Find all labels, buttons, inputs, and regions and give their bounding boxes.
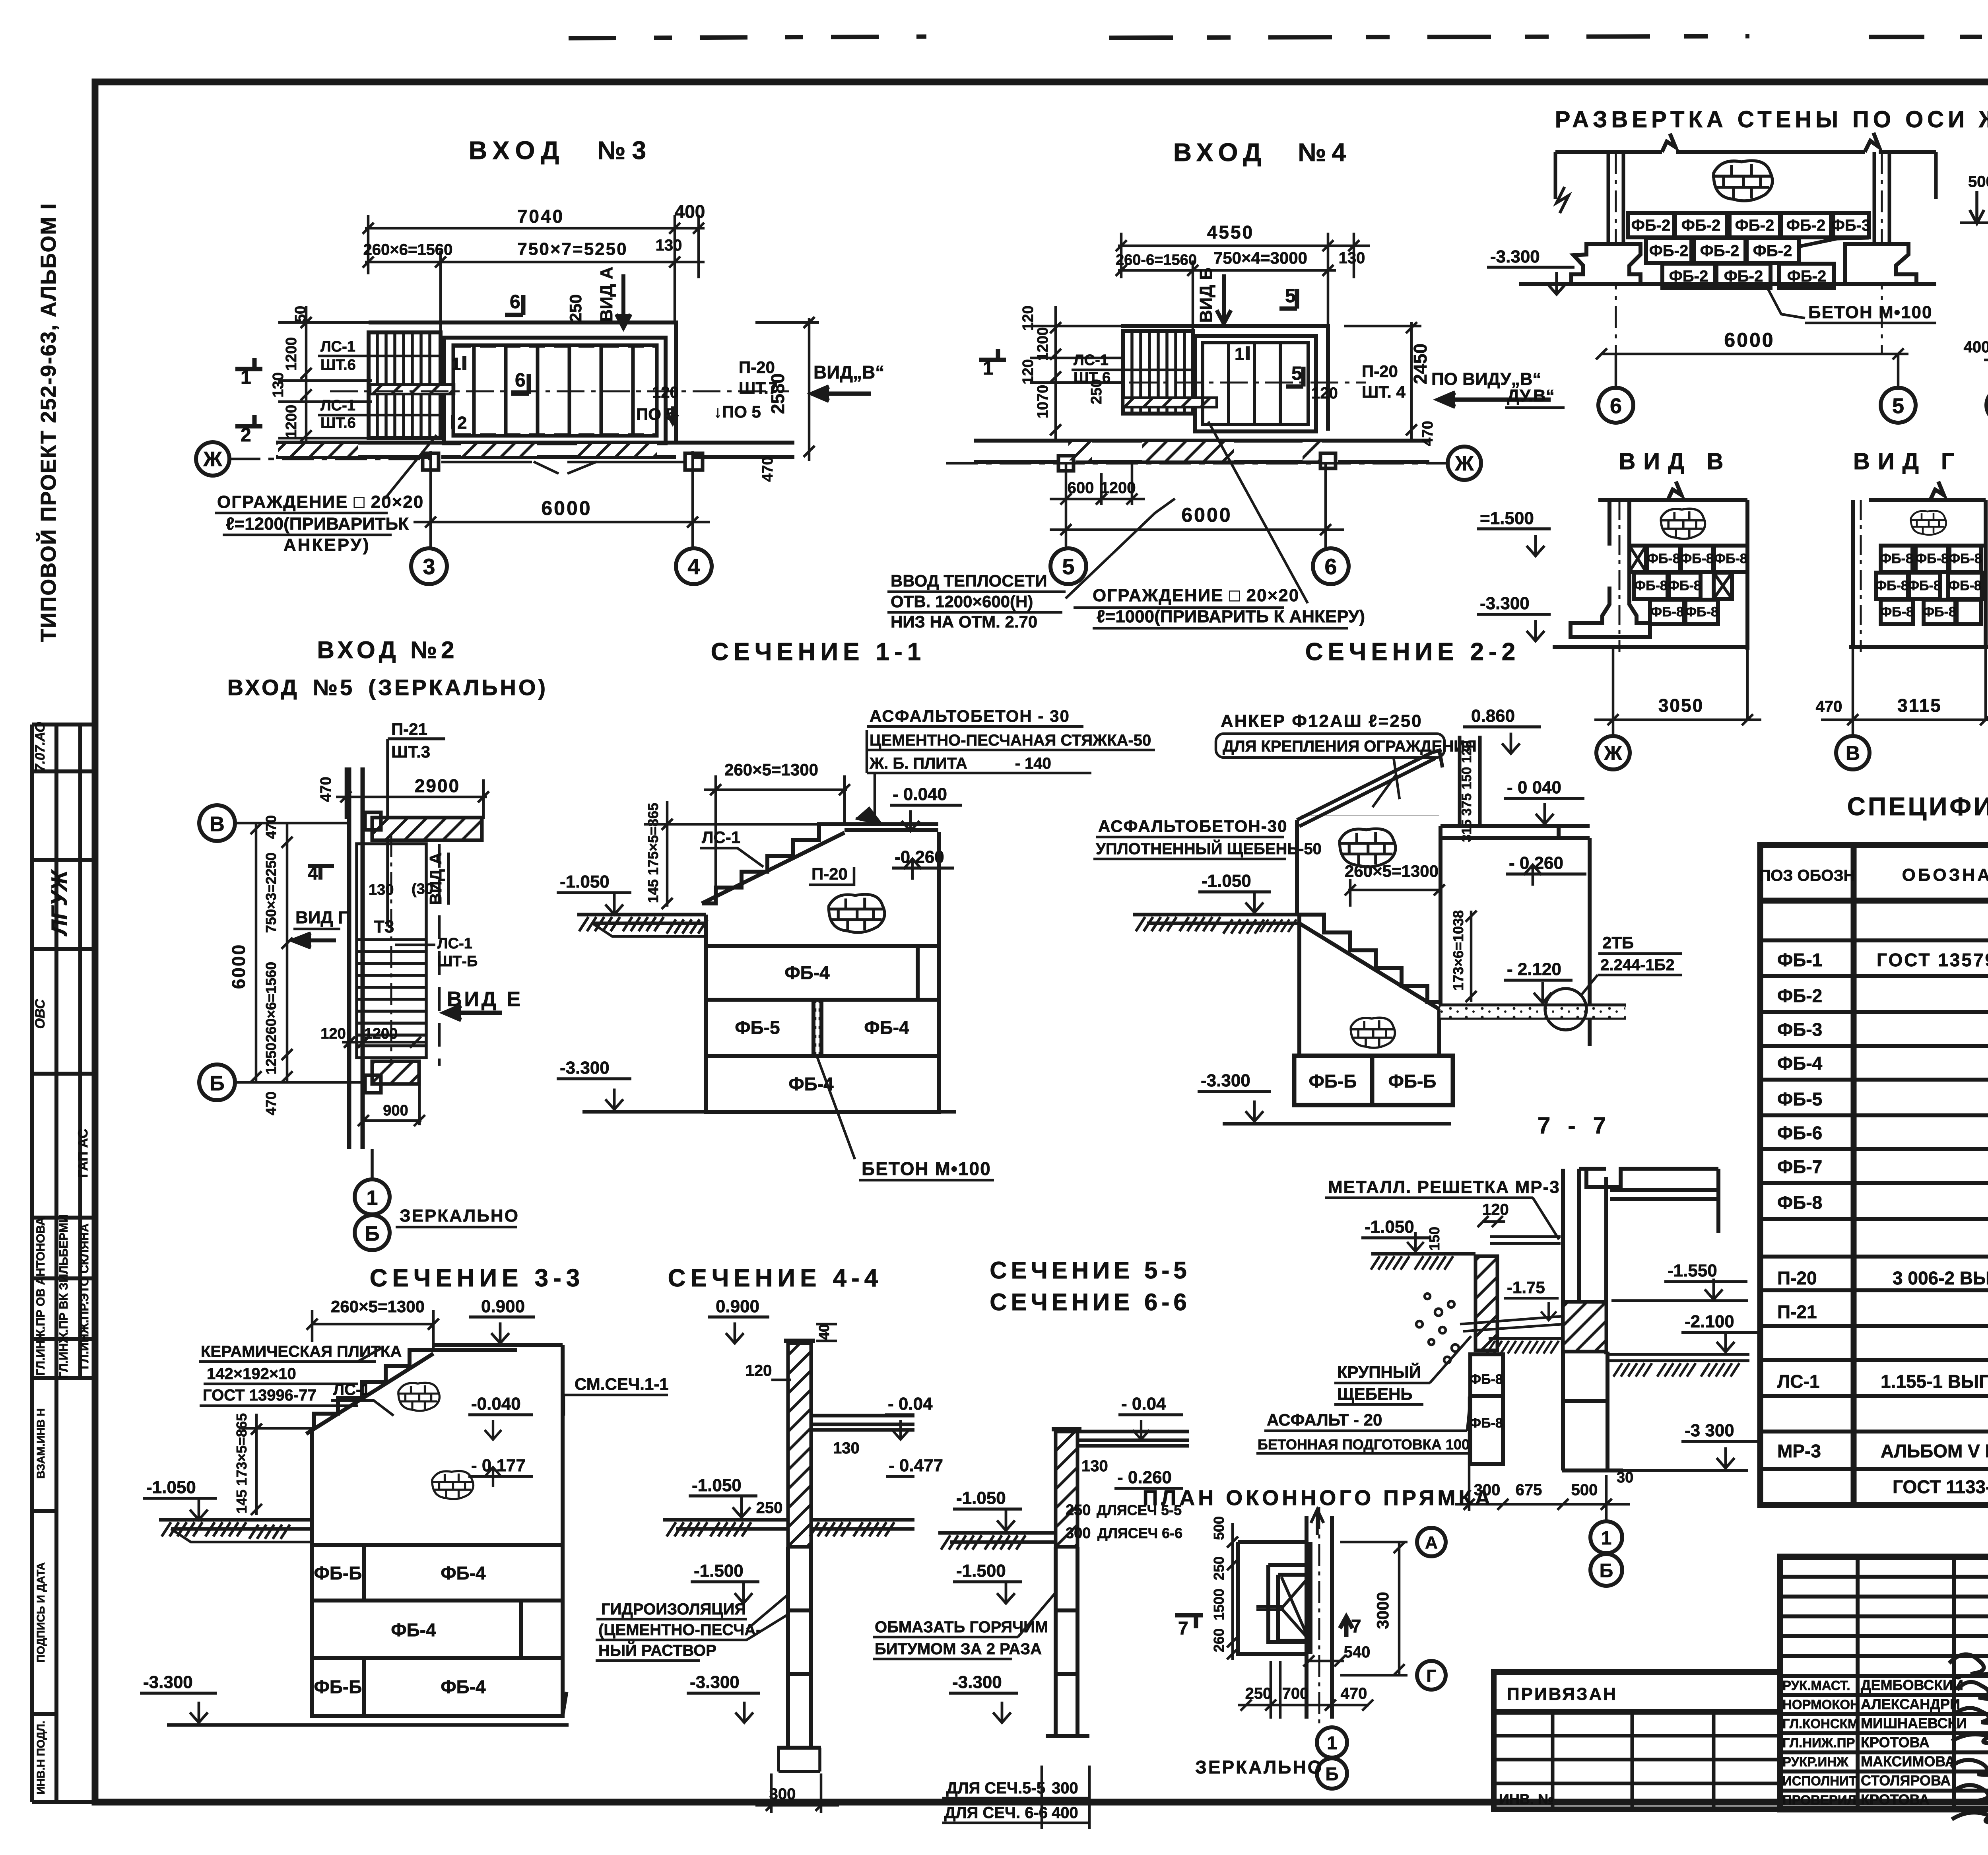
svg-text:1: 1: [1327, 1733, 1337, 1753]
svg-text:СЕЧЕНИЕ 6-6: СЕЧЕНИЕ 6-6: [990, 1289, 1190, 1315]
svg-text:НЫЙ РАСТВОР: НЫЙ РАСТВОР: [598, 1641, 716, 1659]
svg-text:2900: 2900: [415, 775, 460, 796]
svg-text:КРУПНЫЙ: КРУПНЫЙ: [1337, 1362, 1421, 1381]
svg-text:ФБ-2: ФБ-2: [1631, 217, 1670, 234]
left dim chain: [1211, 1516, 1227, 1652]
wall mass with blocks: [312, 1345, 563, 1716]
svg-text:↓ПО 5: ↓ПО 5: [714, 402, 761, 421]
svg-text:250: 250: [756, 1499, 783, 1517]
grate: [1490, 1237, 1561, 1243]
svg-text:120: 120: [745, 1362, 772, 1379]
svg-text:Г: Г: [1427, 1666, 1437, 1686]
svg-text:1200: 1200: [283, 405, 300, 439]
svg-text:КЕРАМИЧЕСКАЯ ПЛИТКА: КЕРАМИЧЕСКАЯ ПЛИТКА: [201, 1343, 402, 1360]
svg-text:ФБ-4: ФБ-4: [1777, 1053, 1823, 1074]
dims 600 1200: [1050, 462, 1145, 549]
svg-text:250: 250: [566, 294, 585, 322]
blocks: [1629, 546, 1747, 624]
svg-text:ФБ-8: ФБ-8: [1908, 578, 1941, 593]
svg-text:СЕЧЕНИЕ 5-5: СЕЧЕНИЕ 5-5: [990, 1257, 1190, 1284]
svg-text:- 0.260: - 0.260: [1117, 1468, 1172, 1487]
axis circle Ж: [196, 442, 229, 476]
svg-text:ФБ-8: ФБ-8: [1650, 604, 1684, 620]
svg-text:173×6=1038: 173×6=1038: [1450, 910, 1466, 991]
svg-text:ПОДПИСЬ И ДАТА: ПОДПИСЬ И ДАТА: [35, 1562, 47, 1663]
svg-text:1250: 1250: [263, 1043, 279, 1074]
svg-text:470: 470: [759, 456, 776, 482]
svg-text:БЕТОННАЯ ПОДГОТОВКА 100‥120: БЕТОННАЯ ПОДГОТОВКА 100‥120: [1258, 1436, 1503, 1453]
plate inner rect and ribs: [453, 345, 657, 436]
svg-text:ИНВ.Н ПОДЛ.: ИНВ.Н ПОДЛ.: [35, 1721, 47, 1794]
svg-text:1: 1: [451, 354, 461, 374]
svg-text:ФБ-2: ФБ-2: [1681, 217, 1720, 234]
svg-text:ИСПОЛНИТ: ИСПОЛНИТ: [1782, 1773, 1857, 1788]
svg-text:1070: 1070: [1035, 385, 1051, 419]
svg-text:6: 6: [1324, 554, 1337, 579]
svg-text:1200: 1200: [1101, 479, 1136, 497]
svg-text:АСФАЛЬТОБЕТОН - 30: АСФАЛЬТОБЕТОН - 30: [870, 707, 1070, 725]
svg-text:ШТ.3: ШТ.3: [391, 742, 430, 761]
svg-text:БЕТОН М•100: БЕТОН М•100: [862, 1158, 991, 1179]
svg-text:6000: 6000: [1724, 329, 1774, 351]
svg-text:750×7=5250: 750×7=5250: [517, 239, 627, 259]
svg-text:РАЗВЕРТКА СТЕНЫ ПО ОСИ Ж: РАЗВЕРТКА СТЕНЫ ПО ОСИ Ж: [1555, 107, 1988, 132]
svg-text:4: 4: [687, 554, 700, 579]
svg-text:ДЛЯ СЕЧ.5-5: ДЛЯ СЕЧ.5-5: [946, 1779, 1045, 1797]
svg-text:-3 300: -3 300: [1685, 1421, 1734, 1440]
svg-text:30: 30: [1617, 1469, 1633, 1486]
svg-text:250: 250: [1066, 1502, 1091, 1519]
svg-text:260×5=1300: 260×5=1300: [724, 760, 818, 779]
svg-text:7 - 7: 7 - 7: [1538, 1113, 1611, 1138]
svg-text:ФБ-8: ФБ-8: [1634, 578, 1668, 593]
svg-text:-2.100: -2.100: [1685, 1312, 1734, 1331]
svg-text:ФБ-8: ФБ-8: [1948, 578, 1982, 593]
svg-text:ФБ-6: ФБ-6: [1777, 1123, 1822, 1143]
block rows: [1628, 213, 1869, 288]
svg-text:6000: 6000: [541, 497, 592, 519]
svg-text:ФБ-4: ФБ-4: [441, 1563, 486, 1583]
svg-text:ФБ-5: ФБ-5: [735, 1017, 780, 1038]
bottom wall band: [974, 441, 1429, 462]
svg-text:ВХОД №3: ВХОД №3: [469, 136, 652, 165]
svg-text:ГОСТ 1133-71: ГОСТ 1133-71: [1893, 1476, 1988, 1497]
svg-text:ФБ-8: ФБ-8: [1714, 551, 1747, 566]
svg-text:500: 500: [1571, 1481, 1598, 1499]
hatched beam: [1563, 1302, 1606, 1352]
svg-text:АСФАЛЬТ - 20: АСФАЛЬТ - 20: [1267, 1410, 1382, 1429]
svg-text:НОРМОКОН: НОРМОКОН: [1782, 1697, 1860, 1712]
svg-text:ФБ-4: ФБ-4: [441, 1676, 486, 1697]
svg-text:Ж: Ж: [1455, 452, 1474, 475]
X brace: [1281, 1577, 1309, 1639]
svg-text:ЛС-1: ЛС-1: [320, 397, 355, 414]
svg-text:ℓ=1000(ПРИВАРИТЬ К АНКЕРУ): ℓ=1000(ПРИВАРИТЬ К АНКЕРУ): [1097, 607, 1365, 626]
svg-text:-1.550: -1.550: [1668, 1261, 1717, 1280]
svg-text:700: 700: [1282, 1685, 1309, 1702]
svg-text:-3.300: -3.300: [560, 1058, 610, 1078]
svg-text:ФБ-Б: ФБ-Б: [1309, 1071, 1357, 1092]
svg-text:1: 1: [367, 1187, 378, 1210]
footing: [1571, 587, 1650, 637]
svg-text:ФБ-8: ФБ-8: [1777, 1192, 1822, 1213]
svg-text:3 006-2 ВЫП.П-2: 3 006-2 ВЫП.П-2: [1893, 1268, 1988, 1288]
svg-text:7.07.АО: 7.07.АО: [33, 722, 48, 772]
left stamp column grid: [32, 725, 95, 1802]
svg-text:В: В: [210, 813, 225, 836]
svg-text:СЕЧЕНИЕ 2-2: СЕЧЕНИЕ 2-2: [1305, 638, 1520, 666]
svg-text:ТИПОВОЙ ПРОЕКТ 252-9-63, АЛЬБО: ТИПОВОЙ ПРОЕКТ 252-9-63, АЛЬБОМ I: [36, 203, 60, 642]
pit floor ground: [1489, 1337, 1563, 1340]
svg-text:-3.300: -3.300: [952, 1672, 1002, 1692]
svg-text:6000: 6000: [1181, 504, 1232, 526]
svg-text:ФБ-5: ФБ-5: [1777, 1089, 1822, 1109]
svg-text:АЛЬБОМ V Р.9.8-1: АЛЬБОМ V Р.9.8-1: [1881, 1441, 1988, 1461]
svg-text:ФБ-Б: ФБ-Б: [314, 1563, 362, 1583]
svg-text:- 0.477: - 0.477: [889, 1456, 943, 1475]
svg-text:ЗЕРКАЛЬНО: ЗЕРКАЛЬНО: [400, 1206, 519, 1226]
floor slab at -2.120: [1439, 1005, 1626, 1018]
axis Ж: [229, 458, 429, 460]
svg-text:470: 470: [1816, 698, 1842, 715]
svg-text:1: 1: [241, 367, 251, 388]
svg-text:142×192×10: 142×192×10: [207, 1365, 296, 1383]
plan outline: [369, 322, 676, 443]
svg-text:ВИД В: ВИД В: [1619, 449, 1732, 474]
svg-text:ПОЗ ОБОЗН: ПОЗ ОБОЗН: [1759, 867, 1855, 884]
svg-text:470: 470: [1419, 421, 1436, 446]
wall below: [1046, 1547, 1089, 1736]
привязан box: [1494, 1672, 1780, 1809]
svg-text:ВХОД №2: ВХОД №2: [317, 637, 458, 663]
svg-text:ДЕМБОВСКИЙ: ДЕМБОВСКИЙ: [1861, 1676, 1963, 1693]
svg-text:0.900: 0.900: [481, 1297, 525, 1316]
svg-text:МАКСИМОВА: МАКСИМОВА: [1861, 1753, 1955, 1770]
svg-text:400: 400: [675, 201, 705, 222]
svg-text:ФБ-8: ФБ-8: [1949, 551, 1982, 566]
circles 1 and 6: [1605, 1511, 1608, 1521]
section marks: [979, 349, 1006, 360]
svg-text:МР-3: МР-3: [1777, 1441, 1821, 1461]
svg-text:ЗЕРКАЛЬНО: ЗЕРКАЛЬНО: [1195, 1757, 1323, 1777]
svg-text:120: 120: [1311, 385, 1338, 402]
dims: [1984, 157, 1988, 388]
svg-text:1.155-1 ВЫП.1: 1.155-1 ВЫП.1: [1881, 1371, 1988, 1392]
svg-text:ФБ-8: ФБ-8: [1923, 604, 1956, 620]
svg-text:Ж: Ж: [203, 448, 223, 471]
torn paper top edge: [569, 37, 926, 38]
svg-text:ФБ-7: ФБ-7: [1777, 1156, 1822, 1177]
wall top line with break squiggles: [1555, 133, 1936, 152]
lower landing edge lines with door gap: [441, 462, 685, 474]
svg-text:(30: (30: [412, 881, 433, 897]
bottom wall band: [276, 443, 794, 457]
svg-text:ШТ-Б: ШТ-Б: [437, 953, 478, 970]
svg-text:2: 2: [241, 425, 251, 446]
svg-text:3000: 3000: [1373, 1592, 1392, 1629]
dim: [1594, 647, 1761, 736]
svg-text:2.244-1Б2: 2.244-1Б2: [1600, 956, 1675, 974]
svg-text:ВЗАМ.ИНВ Н: ВЗАМ.ИНВ Н: [35, 1408, 47, 1478]
svg-text:- 0.04: - 0.04: [888, 1394, 933, 1414]
svg-text:СЕЧЕНИЕ 4-4: СЕЧЕНИЕ 4-4: [668, 1265, 883, 1292]
svg-text:500: 500: [1211, 1516, 1227, 1540]
svg-text:ЛС-1: ЛС-1: [333, 1381, 370, 1399]
svg-text:130: 130: [270, 372, 287, 397]
svg-text:ФБ-4: ФБ-4: [784, 962, 830, 983]
svg-text:-1.050: -1.050: [146, 1478, 196, 1497]
svg-text:ФБ-8: ФБ-8: [1685, 604, 1718, 620]
right building wall verticals: [1563, 1169, 1720, 1470]
svg-text:1200: 1200: [364, 1026, 398, 1042]
svg-text:ЩЕБЕНЬ: ЩЕБЕНЬ: [1337, 1385, 1413, 1403]
svg-text:ФБ-8: ФБ-8: [1680, 551, 1714, 566]
railing diagonal: [1297, 750, 1442, 826]
svg-text:120: 120: [652, 384, 679, 401]
svg-text:900: 900: [383, 1102, 408, 1119]
svg-text:1: 1: [1235, 344, 1244, 364]
svg-text:ФБ-8: ФБ-8: [1668, 578, 1701, 593]
svg-text:130: 130: [1339, 249, 1365, 267]
svg-text:3115: 3115: [1897, 695, 1942, 716]
svg-text:ФБ-8: ФБ-8: [1915, 551, 1949, 566]
svg-text:2ТБ: 2ТБ: [1602, 933, 1634, 952]
svg-text:МЕТАЛЛ. РЕШЕТКА МР-3: МЕТАЛЛ. РЕШЕТКА МР-3: [1328, 1177, 1560, 1197]
svg-text:4550: 4550: [1207, 222, 1254, 243]
section marks 1 and 2 left: [235, 358, 262, 426]
svg-text:260×6=1560: 260×6=1560: [363, 241, 453, 258]
svg-text:ОГРАЖДЕНИЕ □ 20×20: ОГРАЖДЕНИЕ □ 20×20: [1093, 586, 1299, 605]
svg-text:Б: Б: [1325, 1764, 1338, 1784]
svg-text:Ж: Ж: [1604, 742, 1622, 764]
brick symbol: [1712, 161, 1773, 201]
svg-text:НИЗ НА ОТМ. 2.70: НИЗ НА ОТМ. 2.70: [891, 612, 1037, 631]
left footing pedestal: [1571, 244, 1640, 284]
svg-text:ФБ-8: ФБ-8: [1470, 1416, 1503, 1431]
svg-text:3050: 3050: [1658, 695, 1704, 716]
svg-text:260×6=1560: 260×6=1560: [263, 962, 279, 1042]
svg-text:П-21: П-21: [391, 720, 427, 738]
dim 6000: [1596, 348, 1908, 359]
svg-text:АЛЕКСАНДРИ: АЛЕКСАНДРИ: [1861, 1696, 1960, 1712]
svg-text:ФБ-3: ФБ-3: [1777, 1019, 1822, 1040]
stair treads: [377, 332, 430, 438]
gravel dots + asphalt wedge: [1460, 1316, 1563, 1331]
svg-text:ЛГУЖ: ЛГУЖ: [47, 869, 72, 937]
svg-text:ФБ-8: ФБ-8: [1647, 551, 1680, 566]
left pier body: [1297, 815, 1439, 1056]
svg-text:УПЛОТНЕННЫЙ ЩЕБЕНЬ-50: УПЛОТНЕННЫЙ ЩЕБЕНЬ-50: [1096, 839, 1322, 858]
svg-text:ГАП АС: ГАП АС: [76, 1129, 91, 1177]
svg-text:ГОСТ 13996-77: ГОСТ 13996-77: [203, 1387, 316, 1404]
svg-text:ОВС: ОВС: [33, 999, 48, 1029]
stairs profile: [702, 824, 938, 903]
svg-text:150: 150: [1426, 1227, 1442, 1251]
svg-text:КРОТОВА: КРОТОВА: [1861, 1791, 1930, 1808]
svg-text:ВИД Г: ВИД Г: [1853, 449, 1962, 474]
svg-text:Б: Б: [365, 1222, 379, 1245]
pit left wall hatched: [1475, 1256, 1497, 1350]
svg-text:ФБ-8: ФБ-8: [1880, 551, 1913, 566]
svg-text:7040: 7040: [517, 206, 564, 227]
svg-text:-1.050: -1.050: [560, 872, 610, 892]
svg-text:БИТУМОМ ЗА 2 РАЗА: БИТУМОМ ЗА 2 РАЗА: [875, 1640, 1042, 1658]
svg-text:СМ.СЕЧ.1-1: СМ.СЕЧ.1-1: [575, 1375, 669, 1393]
svg-text:ВИД„В“: ВИД„В“: [813, 362, 884, 383]
svg-text:400: 400: [1964, 338, 1988, 356]
svg-text:6: 6: [1610, 394, 1622, 418]
svg-text:-3.300: -3.300: [1490, 247, 1540, 266]
svg-text:260×5=1300: 260×5=1300: [331, 1297, 425, 1316]
svg-text:ШТ 6: ШТ 6: [1074, 369, 1110, 386]
svg-text:Т3: Т3: [374, 917, 394, 936]
svg-text:- 0 040: - 0 040: [1507, 778, 1561, 797]
svg-text:ВИД А: ВИД А: [597, 267, 616, 322]
svg-text:7: 7: [1178, 1618, 1188, 1638]
brick blobs: [1338, 829, 1396, 867]
svg-text:470: 470: [263, 1092, 279, 1115]
svg-text:ФБ-2: ФБ-2: [1649, 242, 1688, 260]
svg-text:1: 1: [983, 358, 994, 379]
svg-text:СТОЛЯРОВА: СТОЛЯРОВА: [1861, 1772, 1951, 1789]
svg-text:ВХОД №4: ВХОД №4: [1173, 138, 1351, 167]
lower blocks ФБ-8: [1470, 1352, 1623, 1470]
narrow hatched wall: [1056, 1432, 1077, 1547]
ground/bottom line: [1519, 282, 1936, 286]
svg-text:ИНВ. №: ИНВ. №: [1499, 1791, 1554, 1807]
svg-text:300: 300: [1052, 1779, 1078, 1797]
svg-text:300: 300: [769, 1785, 796, 1803]
svg-text:250: 250: [1211, 1556, 1227, 1580]
svg-text:600: 600: [1068, 479, 1094, 497]
dim row 2: [363, 251, 705, 332]
svg-text:СЕЧЕНИЕ 1-1: СЕЧЕНИЕ 1-1: [711, 638, 926, 666]
svg-text:ШТ.6: ШТ.6: [320, 415, 356, 431]
svg-text:ФБ-8: ФБ-8: [1880, 604, 1914, 620]
svg-text:-1.75: -1.75: [1507, 1278, 1545, 1297]
svg-text:ЛС-1: ЛС-1: [1074, 352, 1109, 369]
svg-text:В: В: [1846, 742, 1860, 764]
svg-text:ЦЕМЕНТНО-ПЕСЧАНАЯ СТЯЖКА-50: ЦЕМЕНТНО-ПЕСЧАНАЯ СТЯЖКА-50: [870, 732, 1151, 749]
svg-text:5: 5: [1285, 286, 1296, 307]
svg-text:ФБ-4: ФБ-4: [864, 1017, 909, 1038]
svg-text:ДУ.В“: ДУ.В“: [1507, 386, 1555, 406]
svg-text:260: 260: [1211, 1628, 1227, 1652]
svg-text:470: 470: [318, 777, 334, 802]
svg-text:ФБ-3: ФБ-3: [1831, 217, 1870, 234]
svg-text:250: 250: [1245, 1685, 1272, 1702]
svg-text:ФБ-8: ФБ-8: [1875, 578, 1908, 593]
svg-text:ГИДРОИЗОЛЯЦИЯ: ГИДРОИЗОЛЯЦИЯ: [601, 1601, 746, 1618]
svg-text:400: 400: [1052, 1804, 1078, 1822]
axis circles В and Б: [199, 805, 235, 841]
svg-text:ФБ-4: ФБ-4: [391, 1620, 436, 1640]
svg-text:- 0.04: - 0.04: [1121, 1394, 1166, 1414]
svg-text:А: А: [1425, 1533, 1438, 1552]
svg-text:ФБ-2: ФБ-2: [1700, 242, 1739, 260]
svg-text:3: 3: [423, 554, 435, 579]
svg-text:ГЛ.ИНЖ.ПР ОВ АНТОНОВА: ГЛ.ИНЖ.ПР ОВ АНТОНОВА: [34, 1217, 47, 1376]
vertical dim 6000: [250, 823, 262, 1082]
svg-text:ВХОД №5 (ЗЕРКАЛЬНО): ВХОД №5 (ЗЕРКАЛЬНО): [227, 675, 548, 700]
svg-text:ШТ. 4: ШТ. 4: [1362, 383, 1406, 401]
svg-text:ФБ-Б: ФБ-Б: [1388, 1071, 1437, 1092]
svg-text:ДЛЯ СЕЧ. 6-6: ДЛЯ СЕЧ. 6-6: [944, 1804, 1048, 1822]
wall below continues: [777, 1547, 821, 1771]
svg-text:-0.040: -0.040: [471, 1394, 521, 1414]
slab right: [811, 1416, 914, 1430]
svg-text:(ЦЕМЕНТНО-ПЕСЧА-: (ЦЕМЕНТНО-ПЕСЧА-: [598, 1621, 761, 1639]
pier footing blocks: [1294, 1056, 1453, 1105]
svg-text:5: 5: [1291, 363, 1302, 384]
svg-text:-3.300: -3.300: [143, 1672, 193, 1692]
svg-text:ОТВ. 1200×600(H): ОТВ. 1200×600(H): [891, 592, 1033, 611]
circles 1 б + зеркально: [1317, 1727, 1347, 1758]
svg-text:ФБ-2: ФБ-2: [1786, 217, 1825, 234]
svg-text:- 2.120: - 2.120: [1507, 960, 1561, 979]
svg-text:1500: 1500: [1211, 1589, 1227, 1620]
svg-text:ГЛ.ИНЖ.ПР ВК ЗИЛЬБЕРМИ: ГЛ.ИНЖ.ПР ВК ЗИЛЬБЕРМИ: [57, 1214, 70, 1378]
wall mass: [702, 832, 939, 1112]
svg-text:ЛС-1: ЛС-1: [437, 935, 472, 952]
svg-text:6: 6: [510, 291, 520, 313]
svg-text:1: 1: [1601, 1528, 1612, 1549]
svg-text:-1.500: -1.500: [956, 1561, 1006, 1581]
svg-text:ФБ-1: ФБ-1: [1777, 950, 1822, 970]
left dims of plan 4: [1020, 305, 1105, 418]
svg-text:260-6=1560: 260-6=1560: [1116, 252, 1197, 268]
svg-text:5: 5: [1062, 554, 1074, 579]
svg-text:145 175×5=865: 145 175×5=865: [645, 803, 661, 903]
signatures squiggles: [1949, 1654, 1988, 1822]
bottom axis circles: [371, 1149, 374, 1179]
dim row 2: [1116, 260, 1336, 330]
svg-text:ℓ=1200(ПРИВАРИТЬК: ℓ=1200(ПРИВАРИТЬК: [226, 514, 409, 534]
svg-text:КРОТОВА: КРОТОВА: [1861, 1734, 1930, 1750]
svg-text:ВИД Б: ВИД Б: [1196, 268, 1216, 323]
svg-text:-3.300: -3.300: [690, 1672, 740, 1692]
svg-text:540: 540: [1344, 1643, 1371, 1661]
axis circles 3 and 4: [411, 548, 447, 584]
svg-text:ФБ-2: ФБ-2: [1777, 985, 1822, 1006]
svg-text:-1.050: -1.050: [1365, 1217, 1414, 1237]
svg-text:ГЛ.КОНСКМ: ГЛ.КОНСКМ: [1782, 1716, 1858, 1731]
svg-text:-1.050: -1.050: [956, 1488, 1006, 1508]
svg-text:П-20: П-20: [1777, 1268, 1817, 1288]
dim 6000: [414, 451, 710, 549]
svg-text:750×3=2250: 750×3=2250: [263, 853, 279, 933]
svg-text:П-21: П-21: [1777, 1301, 1817, 1322]
svg-text:АНКЕР Ф12АШ ℓ=250: АНКЕР Ф12АШ ℓ=250: [1221, 711, 1423, 731]
steps descending right: [1299, 915, 1439, 1056]
dim 6000: [1050, 462, 1344, 549]
svg-text:Ж. Б. ПЛИТА - 140: Ж. Б. ПЛИТА - 140: [869, 755, 1051, 772]
svg-text:ПЛАН ОКОННОГО ПРЯМКА: ПЛАН ОКОННОГО ПРЯМКА: [1143, 1486, 1494, 1510]
svg-text:ФБ-2: ФБ-2: [1735, 217, 1774, 234]
svg-text:Б: Б: [210, 1072, 224, 1095]
svg-text:- 0.040: - 0.040: [893, 785, 947, 804]
svg-text:130: 130: [833, 1439, 860, 1457]
svg-text:130: 130: [369, 882, 394, 898]
svg-text:130: 130: [656, 237, 682, 254]
plan outline: [1121, 326, 1328, 431]
svg-text:=1.500: =1.500: [1480, 509, 1534, 528]
svg-text:470: 470: [1341, 1685, 1367, 1702]
svg-text:675: 675: [1516, 1481, 1542, 1499]
svg-text:-1.050: -1.050: [1202, 871, 1251, 891]
right footing pedestal: [1845, 244, 1916, 284]
pit rect: [1238, 1542, 1307, 1654]
